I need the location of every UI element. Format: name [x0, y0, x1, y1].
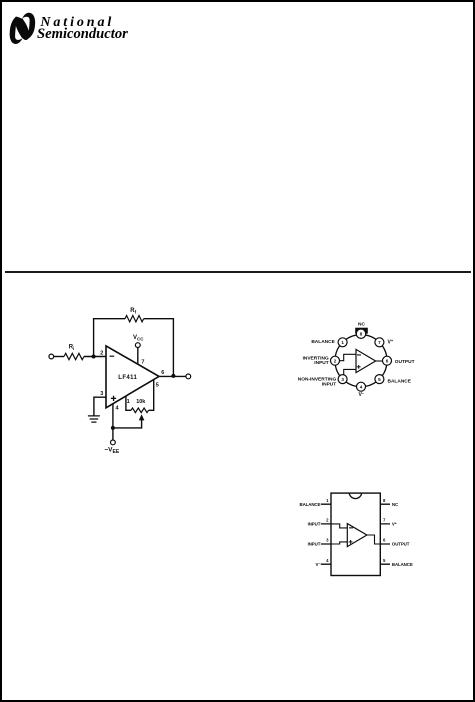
- svg-text:INPUT: INPUT: [322, 382, 336, 388]
- svg-text:NC: NC: [392, 502, 399, 507]
- svg-text:3: 3: [341, 377, 344, 382]
- svg-text:6: 6: [383, 538, 386, 543]
- svg-text:2: 2: [326, 518, 329, 523]
- svg-text:5: 5: [383, 558, 386, 563]
- svg-text:5: 5: [156, 382, 159, 388]
- svg-text:8: 8: [383, 498, 386, 503]
- svg-text:7: 7: [378, 340, 381, 345]
- svg-text:INPUT: INPUT: [314, 360, 328, 366]
- svg-text:V−: V−: [316, 562, 321, 567]
- svg-text:8: 8: [360, 332, 363, 337]
- svg-text:4: 4: [326, 558, 329, 563]
- svg-text:2: 2: [100, 351, 103, 357]
- svg-text:6: 6: [161, 370, 164, 376]
- svg-text:7: 7: [141, 360, 144, 366]
- svg-text:3: 3: [100, 391, 103, 397]
- svg-text:5: 5: [378, 377, 381, 382]
- svg-text:BALANCE: BALANCE: [392, 562, 413, 567]
- svg-text:NC: NC: [358, 322, 365, 328]
- svg-text:2: 2: [334, 358, 337, 363]
- svg-text:6: 6: [386, 358, 389, 363]
- svg-text:INPUT: INPUT: [308, 522, 321, 527]
- svg-text:7: 7: [383, 518, 386, 523]
- svg-text:V+: V+: [388, 338, 394, 345]
- svg-text:V−: V−: [358, 391, 364, 398]
- svg-text:VCC: VCC: [133, 335, 144, 342]
- svg-text:4: 4: [116, 405, 120, 411]
- svg-text:Ri: Ri: [69, 345, 75, 352]
- svg-text:−VEE: −VEE: [104, 447, 119, 456]
- svg-text:OUTPUT: OUTPUT: [392, 542, 410, 547]
- svg-text:10k: 10k: [136, 399, 146, 405]
- svg-text:4: 4: [360, 384, 363, 389]
- svg-text:BALANCE: BALANCE: [300, 502, 321, 507]
- svg-text:NON-INVERTING: NON-INVERTING: [298, 376, 337, 382]
- svg-text:Rf: Rf: [130, 308, 136, 315]
- svg-text:1: 1: [127, 399, 130, 405]
- svg-text:3: 3: [326, 538, 329, 543]
- svg-text:V+: V+: [392, 521, 397, 526]
- svg-text:LF411: LF411: [118, 375, 137, 381]
- svg-text:OUTPUT: OUTPUT: [395, 359, 415, 365]
- svg-text:INPUT: INPUT: [308, 542, 321, 547]
- svg-text:1: 1: [326, 498, 329, 503]
- svg-text:BALANCE: BALANCE: [388, 379, 412, 385]
- svg-text:BALANCE: BALANCE: [311, 339, 335, 345]
- svg-text:1: 1: [341, 340, 344, 345]
